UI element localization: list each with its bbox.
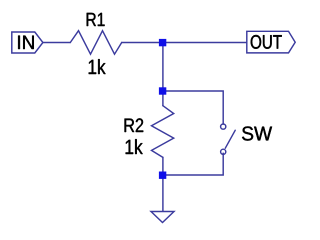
- port IN: [12, 32, 43, 53]
- label R1: [87, 13, 105, 26]
- label SW: [242, 126, 272, 140]
- node junction mid: [159, 87, 166, 94]
- node junction top: [159, 39, 166, 46]
- value 1k of R1: [89, 59, 106, 74]
- wire IN to R1: [43, 42, 70, 44]
- node junction bottom: [159, 172, 166, 179]
- wire junction mid to R2: [162, 91, 164, 106]
- wire R2 to junction bottom: [162, 157, 164, 175]
- wire junction top to junction mid: [162, 43, 164, 92]
- label IN: [18, 36, 34, 49]
- switch SW bottom contact: [221, 149, 226, 154]
- label R2: [125, 118, 144, 132]
- resistor R1: [70, 31, 121, 55]
- wire switch bottom contact to junction bottom: [163, 153, 224, 175]
- wire junction mid to switch top contact: [163, 91, 224, 124]
- switch SW blade: [225, 130, 235, 148]
- resistor R2: [152, 106, 174, 158]
- wire R1 to OUT: [122, 42, 247, 44]
- wire junction bottom to ground: [162, 175, 164, 211]
- label OUT: [251, 35, 282, 49]
- value 1k of R2: [126, 139, 143, 154]
- ground: [151, 212, 174, 223]
- switch SW top contact: [221, 124, 226, 129]
- port OUT: [247, 31, 295, 53]
